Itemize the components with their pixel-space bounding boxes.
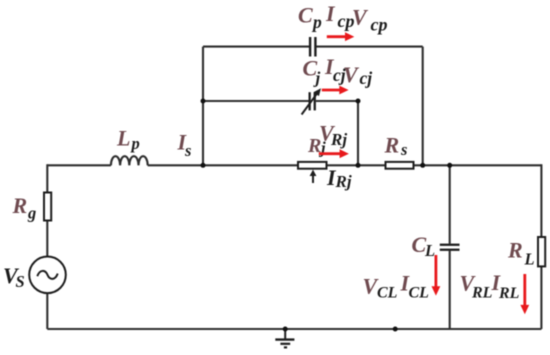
- arrow red Icj current arrow: [322, 86, 349, 95]
- capacitor C2 Cj plates: [309, 92, 316, 110]
- label VRL: [460, 271, 493, 302]
- svg-text:L: L: [424, 241, 435, 260]
- label VS: [3, 263, 25, 291]
- svg-text:s: s: [400, 140, 407, 159]
- node junction dot Cj row left: [201, 99, 206, 104]
- arrow variable capacitor Cj diagonal arrow: [302, 88, 321, 114]
- ground: [275, 329, 294, 347]
- label Rj: [307, 135, 326, 158]
- wire top row right of Cp: [317, 46, 423, 48]
- resistor Rg: [44, 193, 51, 221]
- label IRL: [491, 270, 520, 302]
- node junction dot bottom wire: [393, 327, 398, 332]
- arrow red VRj arrow: [319, 149, 349, 158]
- arrow red IRL current arrow: [520, 274, 529, 314]
- wire bottom row: [47, 328, 541, 330]
- node junction dot CL branch top: [447, 163, 452, 168]
- label VRj: [319, 121, 347, 149]
- svg-text:R: R: [12, 193, 28, 218]
- wire Is vertical branch: [202, 47, 204, 166]
- label Icp: [325, 1, 355, 31]
- svg-text:p: p: [130, 134, 140, 153]
- svg-text:cp: cp: [371, 15, 388, 35]
- svg-text:C: C: [298, 2, 313, 27]
- wire Cj right vertical branch: [357, 101, 359, 165]
- svg-text:V: V: [343, 62, 360, 87]
- label RL: [507, 237, 535, 268]
- svg-text:L: L: [116, 125, 130, 150]
- inductor Lp: [111, 156, 148, 165]
- svg-text:CL: CL: [377, 284, 398, 301]
- resistor RL: [538, 237, 545, 266]
- label Vcp: [352, 4, 388, 34]
- arrow Rj adjustment arrow: [310, 170, 317, 183]
- svg-text:p: p: [311, 12, 322, 32]
- wire Cj row right of Cj: [316, 100, 358, 102]
- node junction dot Cp branch bottom: [420, 163, 425, 168]
- svg-text:I: I: [325, 1, 336, 26]
- label VCL: [363, 274, 398, 302]
- wire main row: [47, 164, 541, 166]
- source VS circle: [29, 257, 66, 294]
- label Rg: [12, 193, 37, 223]
- node junction dot ground: [283, 327, 288, 332]
- arrow red ICL current arrow: [432, 255, 441, 296]
- capacitor C1 Cp plates: [309, 37, 317, 57]
- capacitor CL plates: [440, 244, 460, 251]
- wire CL vertical branch: [449, 165, 451, 329]
- resistor Rj: [298, 162, 327, 169]
- label ICL: [400, 271, 430, 302]
- svg-text:R: R: [507, 237, 523, 262]
- resistor Rs: [386, 162, 414, 169]
- label Is: [177, 129, 192, 160]
- svg-text:g: g: [27, 204, 36, 223]
- svg-text:Rj: Rj: [335, 172, 352, 191]
- node junction dot Cj row right: [356, 99, 361, 104]
- svg-text:cj: cj: [360, 68, 373, 88]
- svg-text:V: V: [352, 4, 369, 29]
- svg-text:L: L: [524, 249, 535, 268]
- svg-text:CL: CL: [409, 284, 430, 301]
- label CL: [412, 232, 436, 260]
- svg-text:Rj: Rj: [330, 130, 347, 149]
- wire left vertical branch: [46, 164, 48, 329]
- label IRj: [326, 165, 352, 191]
- label Cp: [298, 2, 322, 32]
- svg-text:RL: RL: [471, 284, 493, 301]
- label Icj: [324, 54, 346, 85]
- svg-text:R: R: [384, 133, 400, 158]
- label Cj: [303, 56, 321, 88]
- label Vcj: [343, 62, 372, 88]
- wire top row left of Cp: [203, 46, 309, 48]
- label Rs: [384, 133, 408, 160]
- svg-text:RL: RL: [498, 285, 520, 302]
- arrow red Icp current arrow: [327, 32, 355, 41]
- wire RL vertical branch: [540, 164, 542, 329]
- svg-text:S: S: [16, 272, 25, 291]
- wire Cp right vertical branch: [422, 47, 424, 166]
- svg-text:s: s: [184, 141, 191, 160]
- node junction dot Is: [201, 163, 206, 168]
- node junction dot Cj branch bottom: [356, 163, 361, 168]
- label Lp: [116, 125, 140, 153]
- wire Cj row left of Cj: [203, 100, 309, 102]
